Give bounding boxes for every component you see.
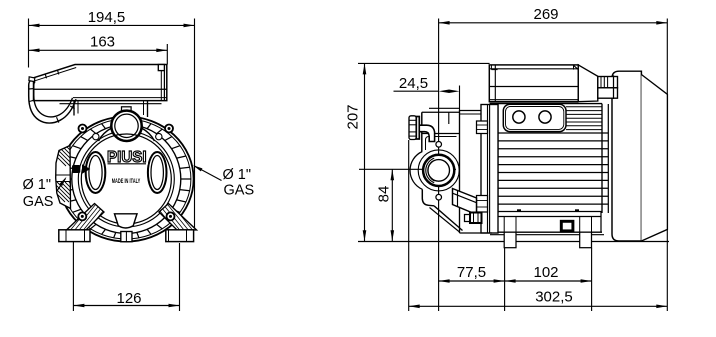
- svg-text:Ø 1": Ø 1": [23, 177, 52, 193]
- svg-text:194,5: 194,5: [88, 9, 126, 26]
- svg-text:302,5: 302,5: [535, 289, 573, 306]
- svg-text:84: 84: [376, 186, 393, 203]
- svg-text:Ø 1": Ø 1": [223, 167, 252, 183]
- svg-text:GAS: GAS: [23, 194, 54, 210]
- svg-text:GAS: GAS: [224, 183, 255, 199]
- svg-text:126: 126: [116, 290, 141, 307]
- svg-text:MADE IN ITALY: MADE IN ITALY: [112, 179, 141, 185]
- svg-text:77,5: 77,5: [457, 264, 486, 281]
- svg-text:269: 269: [533, 6, 558, 23]
- svg-text:102: 102: [533, 264, 558, 281]
- svg-text:163: 163: [90, 34, 115, 51]
- svg-text:207: 207: [344, 104, 361, 129]
- svg-text:24,5: 24,5: [399, 75, 428, 92]
